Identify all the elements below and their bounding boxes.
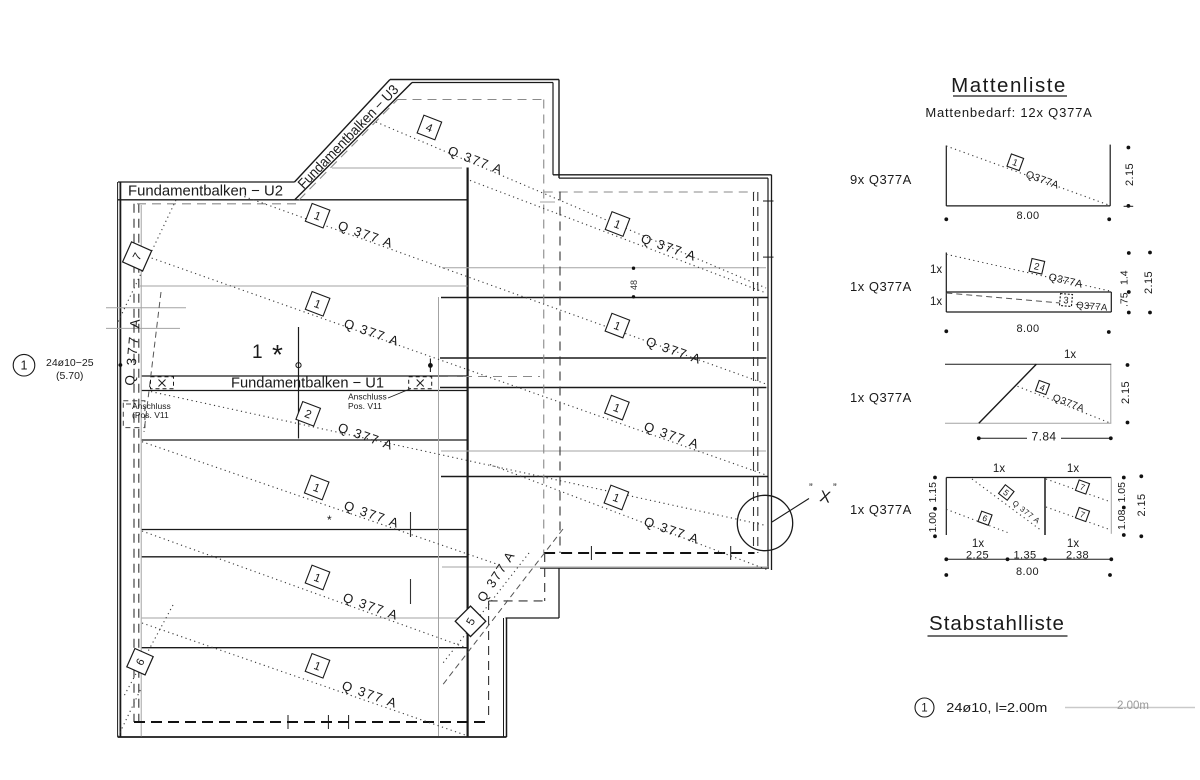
svg-text:1.15: 1.15 bbox=[927, 482, 939, 503]
svg-text:1x: 1x bbox=[1067, 463, 1079, 475]
svg-text:2.15: 2.15 bbox=[1136, 493, 1148, 516]
svg-text:1x: 1x bbox=[1064, 349, 1076, 361]
svg-text:1: 1 bbox=[21, 359, 28, 373]
svg-text:7.84: 7.84 bbox=[1032, 430, 1057, 444]
svg-text:1.00: 1.00 bbox=[927, 512, 939, 533]
svg-text:(Pos. V11: (Pos. V11 bbox=[132, 410, 169, 420]
svg-text:9x Q377A: 9x Q377A bbox=[850, 172, 912, 187]
svg-text:1.08: 1.08 bbox=[1116, 509, 1128, 530]
svg-text:1: 1 bbox=[252, 342, 263, 363]
svg-text:Anschluss: Anschluss bbox=[348, 392, 387, 402]
svg-text:1.4: 1.4 bbox=[1119, 270, 1131, 285]
svg-text:1.35: 1.35 bbox=[1013, 550, 1036, 562]
svg-text:24ø10−25: 24ø10−25 bbox=[46, 357, 94, 369]
svg-text:Mattenliste: Mattenliste bbox=[951, 74, 1067, 97]
svg-text:1x: 1x bbox=[972, 538, 984, 550]
svg-text:2.15: 2.15 bbox=[1143, 271, 1155, 294]
svg-text:2.00m: 2.00m bbox=[1117, 700, 1149, 712]
svg-text:8.00: 8.00 bbox=[1016, 210, 1039, 222]
svg-text:1x: 1x bbox=[930, 296, 942, 308]
svg-text:*: * bbox=[272, 339, 283, 370]
svg-text:Fundamentbalken − U1: Fundamentbalken − U1 bbox=[231, 375, 384, 392]
svg-text:1x: 1x bbox=[1067, 538, 1079, 550]
svg-text:”: ” bbox=[809, 482, 813, 494]
svg-text:1x Q377A: 1x Q377A bbox=[850, 502, 912, 517]
svg-text:1.05: 1.05 bbox=[1116, 482, 1128, 503]
svg-text:24ø10, l=2.00m: 24ø10, l=2.00m bbox=[946, 701, 1047, 715]
svg-text:(5.70): (5.70) bbox=[56, 370, 83, 382]
svg-text:1x Q377A: 1x Q377A bbox=[850, 279, 912, 294]
svg-text:1x: 1x bbox=[993, 463, 1005, 475]
svg-text:2.25: 2.25 bbox=[966, 550, 989, 562]
svg-text:.75: .75 bbox=[1119, 292, 1131, 307]
svg-text:1x Q377A: 1x Q377A bbox=[850, 390, 912, 405]
svg-text:3: 3 bbox=[1063, 295, 1069, 306]
svg-text:Mattenbedarf: 12x Q377A: Mattenbedarf: 12x Q377A bbox=[925, 105, 1092, 120]
svg-text:2.15: 2.15 bbox=[1120, 381, 1132, 404]
svg-text:48: 48 bbox=[629, 280, 639, 290]
svg-text:1x: 1x bbox=[930, 264, 942, 276]
svg-text:Stabstahlliste: Stabstahlliste bbox=[929, 612, 1065, 635]
svg-text:1: 1 bbox=[921, 703, 927, 715]
svg-text:”: ” bbox=[833, 482, 837, 494]
svg-text:8.00: 8.00 bbox=[1016, 566, 1039, 578]
svg-text:Fundamentbalken − U2: Fundamentbalken − U2 bbox=[128, 183, 283, 200]
svg-text:2.38: 2.38 bbox=[1066, 550, 1089, 562]
svg-text:*: * bbox=[327, 513, 332, 527]
svg-text:Pos. V11: Pos. V11 bbox=[348, 401, 382, 411]
svg-text:8.00: 8.00 bbox=[1016, 323, 1039, 335]
svg-text:2.15: 2.15 bbox=[1124, 163, 1136, 186]
